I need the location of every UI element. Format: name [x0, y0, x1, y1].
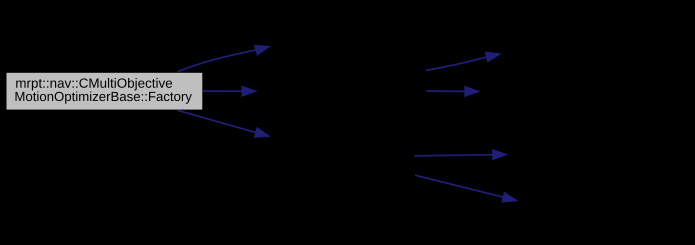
wire — [426, 90, 466, 92]
arrowhead — [254, 127, 270, 137]
edge 7: node4 -> node8 (down-right) — [415, 175, 518, 202]
wire — [414, 155, 494, 156]
wire — [178, 110, 258, 133]
arrowhead — [242, 86, 257, 97]
label line 1: mrpt::nav::CMultiObjective — [16, 78, 172, 91]
label line 2: MotionOptimizerBase::Factory — [16, 91, 192, 103]
node box U1: mrpt::nav::CMultiObjectiveMotionOptimizerBase::Factory — [6, 72, 203, 110]
arrowhead — [492, 149, 507, 160]
arrowhead — [485, 52, 501, 62]
wire — [203, 90, 244, 92]
wire — [415, 175, 505, 197]
edge 2: Factory -> node3 (horizontal) — [203, 86, 257, 97]
edge 4: node2 -> node5 (up-right) — [426, 52, 501, 71]
arrowhead — [465, 86, 480, 97]
edge 5: node3 -> node6 (horizontal) — [426, 86, 479, 97]
wire — [178, 50, 258, 72]
wire — [426, 57, 488, 71]
edge 3: Factory -> node4 (down-right) — [178, 110, 271, 137]
arrowhead — [502, 192, 518, 202]
edge 6: node4 -> node7 (horizontal) — [414, 149, 507, 160]
edge 1: Factory -> node2 (up-right) — [178, 45, 270, 71]
arrowhead — [254, 45, 270, 55]
